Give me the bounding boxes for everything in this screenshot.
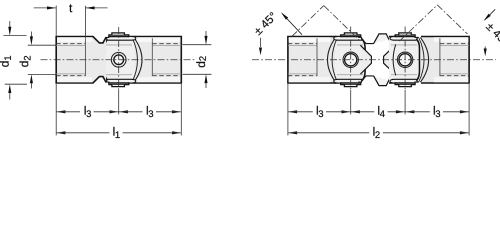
middle fork arm band joint1 bottom [334,79,362,83]
joint1 pin boss ring [343,52,358,67]
yoke root fillet arcs [134,37,142,82]
left sleeve body [56,37,106,84]
dimension t extension lines [55,6,57,37]
left fork arm band top [106,37,136,41]
dimension l2 [288,131,297,134]
top edge across caps joint1 [341,36,361,38]
joint2 fillet arcs [420,37,428,82]
dimension t arrows and label [34,7,56,9]
extension lines bottom left figure [55,84,57,135]
joint2 tongue [389,37,420,84]
right shaft cylinder (left figure) [134,37,181,84]
right cylinder highlight strips [135,37,181,42]
joint2 pin boss ring [397,52,412,67]
horizontal centerline right figure [252,59,496,61]
right cylinder bore hidden lines [152,43,181,45]
right cylinder bore bottom line [151,38,153,76]
pin boss ring [111,52,126,67]
joint1 tongue [335,37,365,84]
rf left sleeve bore hidden lines [288,43,317,45]
dimension d2 right side [183,44,212,46]
middle piece tongue2 root boss bottom [374,76,396,86]
pin1 vertical centerline [350,27,352,91]
pin vertical centerline [118,27,120,90]
pin hole [114,55,124,65]
rf right sleeve bore bottom line [439,38,441,76]
rf right sleeve bore hidden lines [440,43,469,45]
joint2 pin caps [395,35,415,37]
dimension l3 right [119,110,128,113]
left fork arm band bottom [106,79,136,83]
dimension l3 left [57,110,66,113]
left down arrow to centerline [260,38,262,47]
left 45 solid leader line [282,14,302,35]
swivel axis dash-dot lines joint1 [292,6,324,37]
middle piece tongue2 root boss top [374,34,396,44]
left sleeve bore bottom line [84,38,86,76]
joint1 pin hole [345,54,357,66]
pin bottom cap [109,82,129,84]
top edge across caps joint2 [395,36,415,38]
right sleeve fork arm band joint2 bottom [390,79,418,83]
middle fork arm band joint1 top [334,37,362,41]
middle piece shank cones (truncated hourglass) [361,46,372,74]
pin2 vertical centerline [404,27,406,91]
dimension l3 (right figure right) [406,110,415,113]
right 45 solid leader line [485,9,495,19]
right cone edges [384,45,395,74]
tongue shading lines [106,44,132,46]
rf left sleeve bore bottom line [316,38,318,76]
right down arrow to centerline [484,47,486,49]
joint1 pin caps [341,35,361,37]
dimension l1 [57,131,66,134]
dimension d2 left [28,44,56,46]
rf left sleeve highlight strips [289,37,331,42]
dimension l4 [351,110,360,113]
right sleeve fork arm band joint2 top [390,37,418,41]
yoke tongue (left figure joint) [105,37,135,84]
label +-45 right [486,23,495,32]
dimension l3 (right figure left) [288,110,297,113]
middle piece bottom silhouette shoulder [361,76,373,81]
top edge across caps [109,36,129,38]
right figure: left sleeve body [288,37,336,84]
left cone edges [360,45,371,74]
rf right sleeve highlight strips [434,37,469,42]
pin top cap [109,35,129,37]
right figure: right sleeve body [421,37,469,84]
joint1 fillet arcs [328,37,336,82]
swivel axis dash-dot lines joint2 [400,5,438,41]
middle piece top silhouette shoulder [361,39,373,44]
extension lines bottom right figure [287,84,289,135]
dimension d1 [3,35,26,37]
horizontal centerline left figure [41,59,197,61]
fork2 barrel mouth arc [393,44,396,75]
label +-45 left [254,27,263,36]
left sleeve bore hidden lines [56,43,85,45]
left sleeve highlight strips [57,37,92,42]
joint2 pin hole [399,54,411,66]
